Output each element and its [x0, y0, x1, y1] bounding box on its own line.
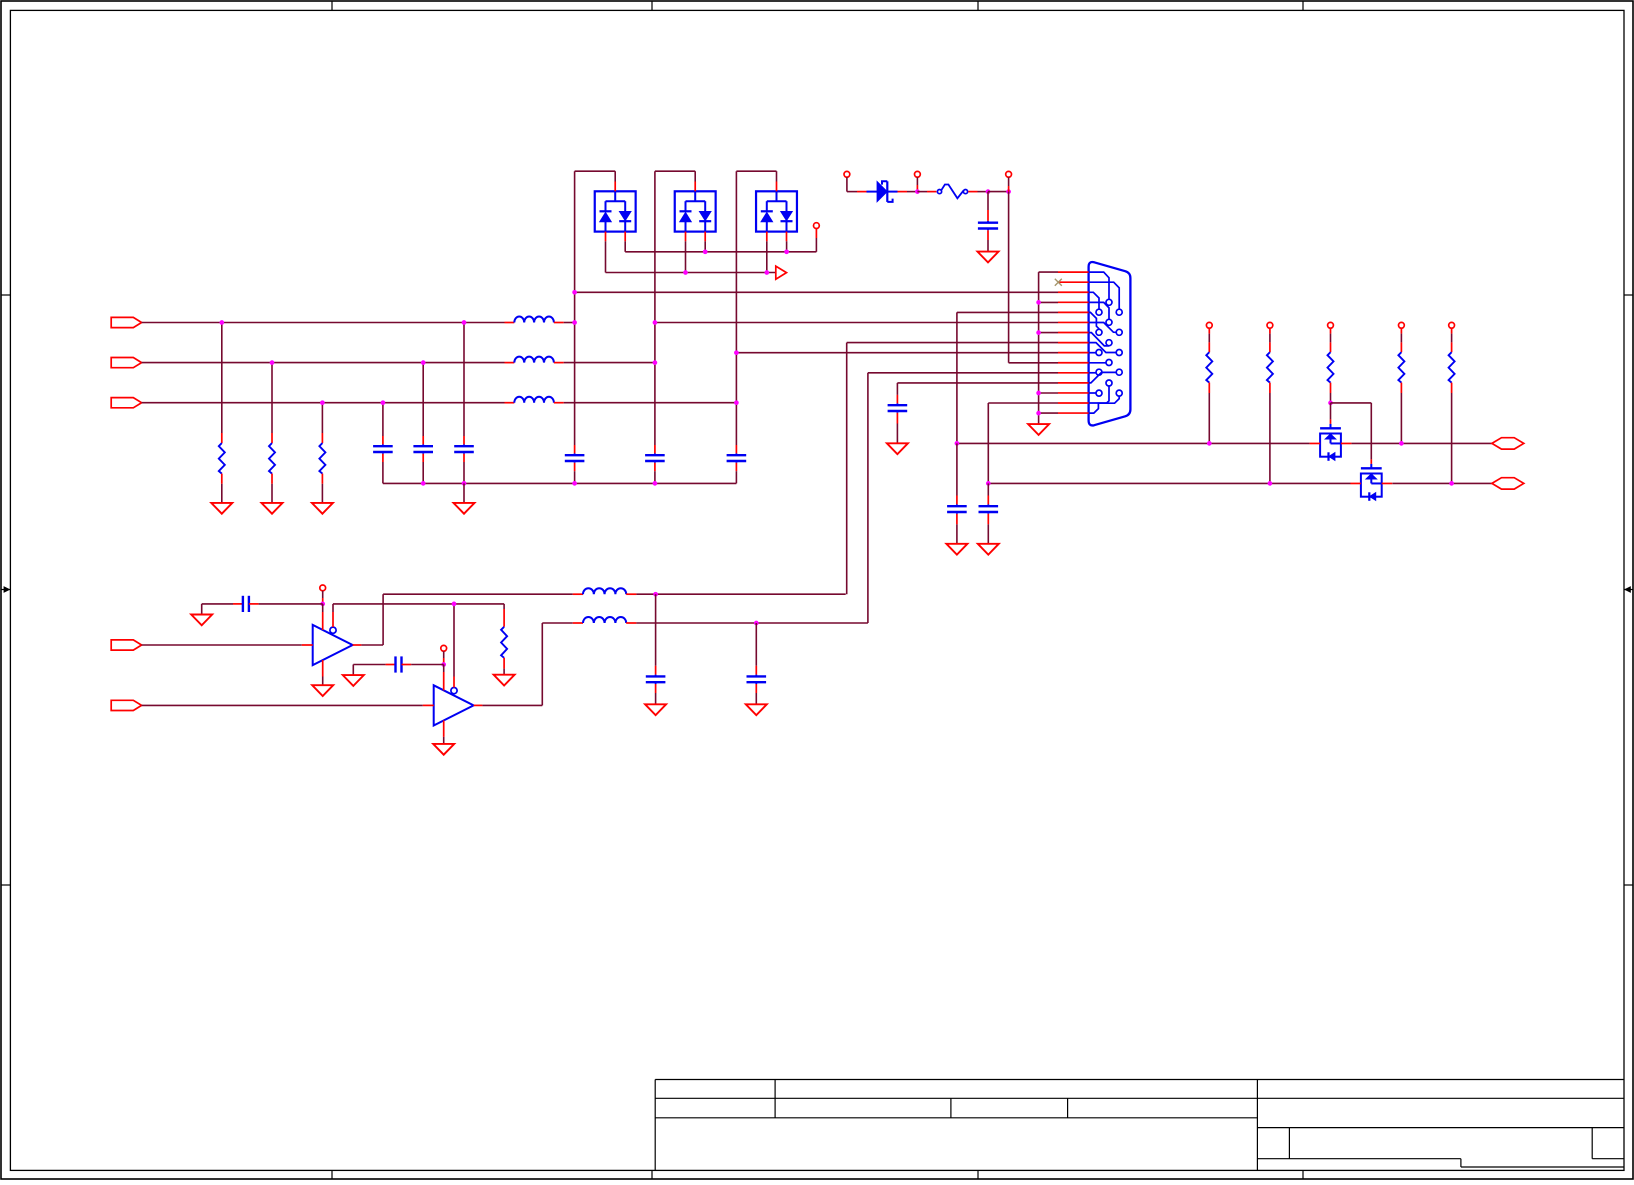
junction bus C4	[572, 481, 577, 486]
junction p9 tap	[734, 350, 739, 355]
terminal pin R6	[1328, 322, 1334, 328]
ground J1	[1028, 424, 1049, 435]
wire cap node to PWR-C node	[988, 191, 1009, 193]
capacitor C7 (power)	[978, 192, 998, 252]
U1 gnd pin	[322, 660, 324, 685]
port OUT2	[1492, 478, 1524, 489]
diode pack D6	[1350, 464, 1392, 501]
inductor L5	[573, 617, 637, 623]
resistor R5	[1267, 328, 1273, 393]
connector J1 shell (DB15)	[1089, 262, 1131, 425]
terminal pin R5	[1267, 322, 1273, 328]
buffer U2	[434, 685, 474, 725]
wire U1 vcc stub	[322, 591, 324, 604]
resistor R2	[269, 433, 275, 484]
wire C11 to ground	[201, 604, 203, 615]
ground below R1	[211, 503, 232, 514]
junction D3 anode	[764, 270, 769, 275]
wire row3 L3 to node	[564, 402, 737, 404]
U2 vcc pin	[443, 665, 445, 691]
ground below C8	[887, 443, 908, 454]
wire L4 to riser	[636, 593, 845, 595]
ground below R9	[494, 675, 515, 686]
wire p12 net	[897, 382, 1058, 384]
wire TVS1 top link	[575, 171, 616, 181]
wire TVS3 top link	[736, 171, 776, 181]
ground at C11	[191, 615, 212, 626]
wire p6 net (row2 tap)	[655, 322, 1058, 324]
wire row1 L1 to node	[564, 322, 575, 324]
junction row3 node	[734, 400, 739, 405]
terminal pin U2 VCC	[441, 645, 447, 651]
junction D3 cathode	[784, 249, 789, 254]
wire D1 anode-rail	[606, 241, 776, 272]
wire TVS column C	[735, 171, 737, 445]
junction D2 anode	[683, 270, 688, 275]
wire D3 cathode drop	[786, 241, 788, 252]
capacitor C9	[947, 443, 967, 543]
ground U2	[433, 744, 454, 755]
junction at C1 top	[381, 400, 386, 405]
inductor L3	[505, 397, 564, 403]
port IN5 (buffer 2 input)	[111, 700, 141, 710]
schottky diode D4	[867, 181, 898, 202]
wire R8 down	[1451, 393, 1453, 483]
junction R7	[1399, 441, 1404, 446]
wire R3 to ground	[321, 484, 323, 503]
right centering arrow	[1624, 586, 1633, 593]
gnd bus (left)	[383, 482, 737, 484]
junction J1 gnd p4	[1036, 300, 1041, 305]
resistor R6	[1328, 328, 1334, 393]
wire PWR-C stub	[1008, 177, 1010, 191]
ground below R2	[262, 503, 283, 514]
wire R1 to ground	[221, 484, 223, 503]
junction PWR-B	[915, 189, 920, 194]
ground at C13	[343, 675, 364, 686]
port IN3 (row 3)	[111, 398, 141, 408]
junction U2 vcc	[441, 662, 446, 667]
wire J1 ground bus	[1039, 272, 1058, 424]
inductor L4	[573, 588, 637, 594]
wire TVS column A	[574, 171, 576, 445]
terminal pin PWR-C	[1006, 171, 1012, 177]
wire line1 (p5 net to OUT1)	[957, 442, 1492, 444]
capacitor C3	[454, 436, 474, 462]
wire IN5 to U2	[142, 704, 434, 706]
port OUT1	[1492, 438, 1524, 449]
left centering arrow	[1, 586, 10, 593]
wire resistor R3 drop	[321, 403, 323, 433]
capacitor C13 (U2 bypass)	[353, 656, 443, 672]
junction p6 tap	[653, 320, 658, 325]
ground below C14	[746, 704, 767, 715]
wire p3 net (row1 tap)	[575, 291, 1058, 293]
junction U1 vcc	[320, 602, 325, 607]
wire fuse to cap node	[968, 191, 988, 193]
junction R5	[1268, 481, 1273, 486]
junction PWR-C node	[1006, 189, 1011, 194]
wire resistor R2 drop	[271, 363, 273, 433]
wire C3 drop	[463, 323, 465, 437]
terminal pin VSS	[814, 223, 820, 229]
resistor R9 (rail)	[501, 604, 507, 675]
wire C2 to gnd bus	[422, 462, 424, 483]
wire R2 to ground	[271, 484, 273, 503]
wire PWR-A down	[847, 177, 867, 191]
wire D2 cathode drop	[704, 241, 706, 252]
capacitor C14	[747, 623, 767, 704]
junction row1 node	[572, 320, 577, 325]
resistor R1	[219, 433, 225, 484]
junction p3 tap	[572, 290, 577, 295]
wire p11 net riser	[868, 373, 1058, 623]
resistor R4	[1206, 328, 1212, 393]
wire p14 net riser	[988, 403, 1058, 483]
wire PWR-B stub	[916, 177, 918, 191]
junction at C3 top	[462, 320, 467, 325]
wire U2 vcc stub	[443, 651, 445, 664]
TVS diode pair D3	[756, 182, 797, 242]
wire row1 from port to L1	[142, 322, 505, 324]
port IN2 (row 2)	[111, 358, 141, 368]
junction L4 cap	[653, 592, 658, 597]
U1 vcc pin	[322, 604, 324, 630]
U1 output wire	[353, 594, 573, 645]
junction J1 gnd p7	[1036, 330, 1041, 335]
junction row2 at R2	[270, 360, 275, 365]
wire L5 to riser	[636, 622, 868, 624]
capacitor C12	[646, 594, 666, 704]
ground below C9	[946, 544, 967, 555]
no-connect cross p2	[1055, 279, 1062, 286]
capacitor C11 (U1 bypass)	[202, 596, 323, 612]
junction D2 cathode	[703, 249, 708, 254]
wire R6 down	[1330, 393, 1332, 403]
wire p5 net riser	[957, 312, 1058, 443]
wire TVS column B	[654, 171, 656, 445]
wire p8 net riser	[847, 343, 1058, 595]
U2 gnd pin	[443, 720, 445, 744]
wire bus ground drop	[463, 483, 465, 503]
wire U1 power rail	[333, 603, 504, 605]
ground below C7	[978, 252, 999, 263]
wire C1 drop	[382, 403, 384, 436]
junction U2 enable	[452, 602, 457, 607]
connector J1 pin pads	[1096, 299, 1122, 396]
wire resistor R1 drop	[221, 323, 223, 434]
connector J1 internal routing	[1089, 272, 1120, 413]
wire R5 down	[1269, 393, 1271, 483]
junction R8	[1449, 481, 1454, 486]
U1 enable pin	[332, 604, 334, 627]
no-ERC marker (right arrow)	[776, 266, 787, 279]
port IN4 (buffer 1 input)	[111, 640, 141, 650]
wire D4 to node	[898, 191, 918, 193]
wire row2 L2 to node	[564, 362, 655, 364]
fuse F1	[937, 185, 967, 199]
ground below R3	[312, 503, 333, 514]
inductor L1	[505, 316, 564, 322]
wire rail to VSS terminal	[815, 229, 817, 252]
wire C1 to gnd bus	[382, 462, 384, 483]
TVS diode pair D1	[595, 182, 636, 242]
capacitor C2	[413, 436, 433, 462]
wire node to fuse	[917, 191, 936, 193]
resistor R3	[319, 433, 325, 484]
capacitor C10	[979, 483, 999, 543]
junction J1 gnd p13	[1036, 391, 1041, 396]
junction R6	[1328, 401, 1333, 406]
junction J1 gnd p15	[1036, 411, 1041, 416]
terminal pin R7	[1399, 322, 1405, 328]
wire row3 from port to L3	[142, 402, 505, 404]
junction bus C2	[421, 481, 426, 486]
junction bus C5	[653, 481, 658, 486]
wire D3 anode drop	[766, 241, 768, 272]
terminal pin PWR-B	[915, 171, 921, 177]
ground below C10	[978, 544, 999, 555]
U2 enable riser	[453, 604, 455, 688]
inductor L2	[505, 357, 564, 363]
wire C13 to ground	[352, 665, 354, 676]
port IN1 (row 1)	[111, 317, 141, 327]
junction bus C3	[462, 481, 467, 486]
wire R6 node to D5 and D6	[1331, 403, 1372, 464]
terminal pin R4	[1206, 322, 1212, 328]
capacitor C4	[565, 445, 585, 483]
junction cap node	[986, 189, 991, 194]
ground U1	[312, 685, 333, 696]
junction at C2 top	[421, 360, 426, 365]
TVS diode pair D2	[675, 182, 716, 242]
resistor R8	[1449, 328, 1455, 393]
capacitor C5	[645, 445, 665, 483]
terminal pin R8	[1449, 322, 1455, 328]
terminal pin PWR-A	[844, 171, 850, 177]
wire D2 anode drop	[685, 241, 687, 272]
terminal pin U1 VCC	[320, 585, 326, 591]
junction row1 at R1	[219, 320, 224, 325]
diode pack D5	[1310, 424, 1352, 461]
title block table	[655, 1080, 1624, 1171]
capacitor C6	[727, 445, 747, 483]
capacitor C1	[373, 436, 393, 462]
wire D1 cathode-rail	[625, 241, 816, 252]
ground on bus	[454, 503, 475, 514]
junction R4	[1207, 441, 1212, 446]
junction line1 start	[955, 441, 960, 446]
wire line2 (p14 net to OUT2)	[988, 482, 1492, 484]
junction row3 at R3	[320, 400, 325, 405]
U2 output wire	[474, 623, 573, 705]
junction row2 node	[653, 360, 658, 365]
buffer U1	[313, 625, 353, 665]
junction line2 start	[986, 481, 991, 486]
wire C3 to gnd bus	[463, 462, 465, 483]
wire C2 drop	[422, 363, 424, 436]
wire IN4 to U1	[142, 644, 313, 646]
wire R7 down	[1400, 393, 1402, 443]
resistor R7	[1398, 328, 1404, 393]
capacitor C8 (p12 filter)	[888, 383, 908, 443]
wire row2 from port to L2	[142, 362, 505, 364]
ground below C12	[645, 704, 666, 715]
junction L5 cap	[754, 621, 759, 626]
wire TVS2 top link	[655, 171, 695, 181]
wire R4 down	[1208, 393, 1210, 443]
wire power rail down to p10	[1009, 192, 1058, 363]
wire p9 net (row3 tap)	[736, 352, 1058, 354]
connector J1 pin stubs	[1058, 272, 1089, 413]
